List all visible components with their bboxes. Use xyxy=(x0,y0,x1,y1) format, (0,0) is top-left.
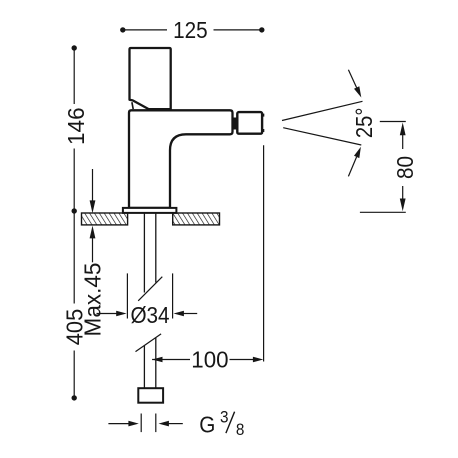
dim 100 line xyxy=(152,359,190,361)
svg-text:146: 146 xyxy=(63,107,89,145)
svg-text:100: 100 xyxy=(191,346,228,372)
spray cone upper line xyxy=(282,101,363,120)
svg-text:Max.45: Max.45 xyxy=(79,263,105,337)
countertop hatched left xyxy=(82,213,128,225)
faucet handle notch line xyxy=(132,102,133,109)
dim O34 right tick xyxy=(172,273,174,318)
faucet body and spout xyxy=(129,110,233,208)
dim O34 left arrow xyxy=(97,313,118,315)
aerator end tabs xyxy=(262,114,264,117)
dim 80 arrows xyxy=(400,123,406,136)
faucet handle xyxy=(130,48,171,109)
Max.45 down arrow above countertop xyxy=(92,169,94,204)
supply shank lower left line xyxy=(143,345,145,388)
spray lower arrow xyxy=(348,157,356,177)
dim 100 reference vertical line xyxy=(263,145,265,361)
dim 80 top tick xyxy=(380,121,406,123)
svg-text:25°: 25° xyxy=(351,108,378,139)
dim O34 left tick xyxy=(126,273,128,318)
dim G3/8 left arrow xyxy=(108,423,130,425)
svg-text:3: 3 xyxy=(220,408,229,427)
break slash lower xyxy=(136,334,162,352)
svg-text:8: 8 xyxy=(236,420,245,439)
base plate xyxy=(123,208,176,213)
aerator body xyxy=(237,112,262,134)
dimension 125 end dots xyxy=(120,27,125,32)
dim G3/8 left tick xyxy=(140,414,142,433)
dimension 146 line xyxy=(73,48,75,213)
dim G3/8 right arrow xyxy=(159,421,169,427)
supply shank upper left line xyxy=(143,213,145,293)
dimension 125 line xyxy=(123,29,262,31)
dimension 405 end dots xyxy=(72,208,77,213)
svg-text:125: 125 xyxy=(173,17,208,43)
dimension 405 line xyxy=(73,211,75,398)
break slash upper xyxy=(138,277,162,301)
aerator neck xyxy=(233,118,237,130)
dim 100 left arrow xyxy=(152,357,162,363)
dim 80 vertical line xyxy=(402,133,404,149)
dim 80 bottom tick xyxy=(360,211,406,213)
Max.45 up arrow below countertop xyxy=(92,235,94,262)
dim O34 right arrow xyxy=(183,313,197,315)
dim G3/8 right tick xyxy=(155,414,157,433)
dimension 146 end dot xyxy=(72,45,77,50)
svg-text:Ø34: Ø34 xyxy=(130,302,169,328)
svg-text:G: G xyxy=(199,411,215,437)
spray cone lower line xyxy=(283,128,361,145)
countertop hatched right xyxy=(173,213,220,225)
spray upper arrow xyxy=(348,70,356,88)
dim 100 right arrow xyxy=(253,357,263,363)
svg-text:80: 80 xyxy=(392,156,418,179)
supply shank upper right line xyxy=(155,213,157,283)
supply fitting block xyxy=(138,388,163,403)
supply shank lower right line xyxy=(155,338,157,389)
